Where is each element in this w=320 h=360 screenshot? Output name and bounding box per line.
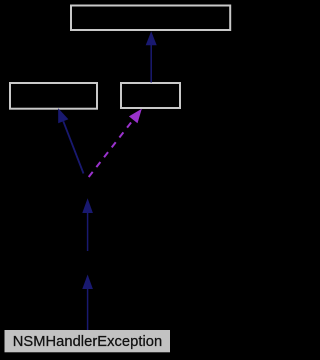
svg-text:NSMHandlerException: NSMHandlerException — [13, 334, 163, 350]
